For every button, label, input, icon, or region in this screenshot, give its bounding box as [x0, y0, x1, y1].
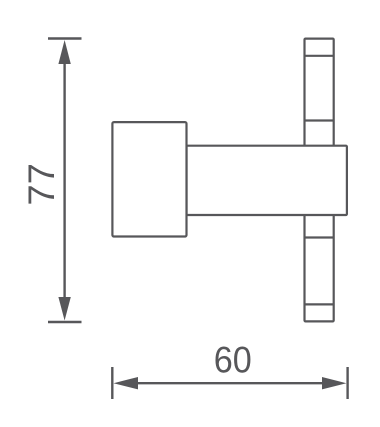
- bar divider lower: [305, 236, 334, 238]
- wall plate bar: [305, 39, 334, 322]
- knob: [112, 122, 186, 236]
- bar divider upper: [305, 119, 334, 121]
- dim 77 tick top: [48, 37, 82, 39]
- dim 77 arrow up: [58, 40, 70, 64]
- dim 77 line: [63, 56, 65, 304]
- dim 77 tick bottom: [48, 321, 82, 323]
- arm: [187, 146, 347, 215]
- bar divider top cap: [305, 55, 334, 57]
- bar divider bottom cap: [305, 303, 334, 305]
- dim 60 arrow left: [114, 377, 139, 389]
- dim 60 arrow right: [322, 377, 346, 389]
- svg-text:77: 77: [21, 163, 62, 206]
- dim 60 tick right: [346, 367, 348, 399]
- dim 60 tick left: [111, 367, 113, 399]
- dim 77 arrow down: [58, 297, 70, 321]
- svg-text:60: 60: [214, 339, 252, 380]
- dim 60 line: [134, 382, 326, 384]
